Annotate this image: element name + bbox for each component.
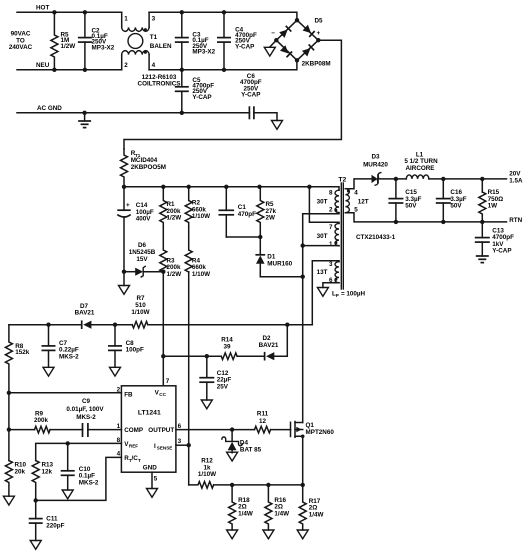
diode D4 BAT85 schottky [231,430,233,442]
svg-text:1: 1 [329,241,333,248]
resistor R14 39 [221,353,237,360]
svg-text:CC: CC [159,392,166,397]
capacitor C2 [84,12,86,37]
svg-text:12T: 12T [358,199,369,206]
capacitor C9 [82,423,84,437]
svg-text:25V: 25V [217,384,229,391]
wire R14 to VCC rail [163,355,221,357]
svg-text:39: 39 [223,343,231,350]
wire HOT extension to bridge [149,12,297,20]
svg-text:Y-CAP: Y-CAP [235,43,254,50]
resistor R5 1M [51,12,58,70]
svg-text:152k: 152k [15,349,30,356]
ground triangle R17 [297,530,308,539]
capacitor C16 [441,177,445,181]
svg-text:AIRCORE: AIRCORE [405,165,434,172]
wire pin6 to ground [323,283,339,288]
ground triangle C6 [272,121,283,130]
svg-text:+: + [317,30,321,37]
svg-text:12: 12 [259,418,267,425]
wire bridge plus to right bus [124,40,341,149]
capacitor C5 [181,70,183,87]
svg-text:20k: 20k [15,468,26,475]
wire pin4 RTCT [36,457,122,500]
ground triangle C14/D6 [123,272,125,286]
ground triangle R18 [227,530,238,539]
wire HOT line [17,11,122,13]
bridge frame [276,20,318,60]
wire bridge minus to ground [270,40,277,47]
svg-text:AC GND: AC GND [37,105,62,112]
transistor Q1 MPT2N60 [290,422,292,436]
ground triangle C10 [62,490,73,499]
svg-text:1: 1 [124,15,128,22]
wire pin1 to drain rail [303,245,339,247]
capacitor C4 [223,12,225,37]
T2 winding 1 primary 30T pins 8-2 [335,190,339,212]
wire pin5 GND [151,472,153,488]
svg-text:50V: 50V [450,203,462,210]
svg-text:1W: 1W [488,203,498,210]
resistor R12 1k [189,482,214,489]
svg-text:1/4W: 1/4W [238,510,253,517]
svg-text:2KBP08M: 2KBP08M [302,60,331,67]
wire NEU line [17,69,122,71]
diode D2 BAV21 [266,352,274,360]
svg-text:220pF: 220pF [46,522,64,529]
resistor R11 12 [255,426,271,433]
svg-text:1/10W: 1/10W [192,271,210,278]
T2 winding 2 primary 30T pins 7-1 [335,223,339,245]
capacitor C14 electrolytic [123,187,125,210]
capacitor C11 220pF [35,500,37,518]
ground triangle C7 [43,367,54,376]
wire snubber node [226,236,260,238]
wire pin4 to D3 [345,179,371,189]
svg-text:MUR420: MUR420 [363,162,388,169]
resistor R3 200k [160,227,167,272]
wire R9 to C9 [50,429,82,431]
svg-text:12k: 12k [42,468,53,475]
svg-text:COILTRONICS: COILTRONICS [138,80,181,87]
svg-text:3: 3 [329,261,333,268]
svg-text:C1: C1 [238,204,247,211]
wire D2 branch [274,325,287,357]
wire D3 to 20V [378,178,406,180]
svg-text:MKS-2: MKS-2 [59,353,79,360]
svg-text:P: P [336,293,339,298]
svg-text:4: 4 [152,62,156,69]
svg-text:30T: 30T [317,199,328,206]
resistor R4 660k [185,227,192,272]
svg-text:I: I [154,443,156,450]
svg-text:200k: 200k [34,417,49,424]
inductor L1 [406,175,429,179]
transformer T1 BALUN [121,12,123,27]
resistor R17 2ohm [299,485,306,530]
resistor R2 660k [185,187,192,227]
svg-text:HOT: HOT [36,5,49,12]
ground earth C13 [476,255,489,257]
svg-text:2W: 2W [266,215,276,222]
svg-text:1/2W: 1/2W [167,271,182,278]
svg-text:3: 3 [178,438,182,445]
capacitor C7 [48,325,50,346]
bridge diode NW [279,26,291,38]
svg-text:1/2W: 1/2W [167,215,182,222]
wire pin3 ISENSE [176,444,189,446]
capacitor C3 [181,12,183,37]
resistor R18 2ohm [229,485,236,530]
ground triangle R10 [3,496,14,505]
wire sense node line [214,484,303,486]
capacitor C1 470pF [225,187,227,211]
resistor R1 200k [160,187,167,227]
wire L1 to 20V out [429,178,507,180]
svg-text:NEU: NEU [36,62,50,69]
wire left rail R8-R10 [8,393,10,461]
wire R7 to D7 [91,324,132,326]
wire pin6 OUTPUT to gate [176,429,255,431]
ground triangle C11 [30,541,41,550]
svg-text:13T: 13T [317,269,328,276]
resistor R9 200k [35,426,51,433]
T2 winding 3 bias 13T pins 3-6 [335,262,339,283]
svg-text:C9: C9 [82,398,91,405]
svg-text:R11: R11 [257,411,269,418]
svg-text:0.01µF, 100V: 0.01µF, 100V [66,406,104,413]
svg-text:7: 7 [329,224,333,231]
resistor R15 750 [480,177,484,181]
svg-text:CTX210433-1: CTX210433-1 [356,234,396,241]
svg-text:4: 4 [117,451,121,458]
svg-text:1/4W: 1/4W [309,511,324,518]
wire pin5 to RTN [345,213,506,222]
wire NEU extension to bridge [149,60,297,70]
svg-text:15V: 15V [136,256,148,263]
svg-text:50V: 50V [405,203,417,210]
wire ISENSE down to R12 [188,445,190,485]
svg-text:FB: FB [124,391,133,398]
resistor R16 2ohm [265,485,272,530]
svg-text:MKS-2: MKS-2 [79,479,99,486]
svg-text:LT1241: LT1241 [138,410,161,417]
capacitor C12 22uF [206,356,208,378]
svg-text:D2: D2 [262,335,271,342]
svg-text:7: 7 [166,378,170,385]
junction dots R5 [52,10,56,14]
capacitor C6 (series in AC GND) [248,106,250,119]
svg-text:SENSE: SENSE [157,446,173,451]
svg-text:RTN: RTN [509,217,522,224]
svg-text:1/10W: 1/10W [198,471,216,478]
svg-text:1/10W: 1/10W [131,309,149,316]
wire AC GND line [17,112,249,114]
wire pin2 to drain rail [303,213,339,246]
svg-text:T: T [138,458,141,463]
svg-text:REF: REF [129,444,138,449]
svg-text:Y-CAP: Y-CAP [192,94,211,101]
svg-text:400V: 400V [136,216,152,223]
wire VCC rail [162,272,164,386]
capacitor C10 [67,443,69,470]
wire DC bus [124,187,339,190]
wire bus to pin7 [309,187,339,224]
svg-text:1/10W: 1/10W [192,213,210,220]
resistor R10 20k [5,461,12,497]
svg-text:1/2W: 1/2W [61,43,76,50]
resistor R7 510 [132,321,148,328]
svg-text:4: 4 [354,190,358,197]
svg-text:240VAC: 240VAC [9,44,33,51]
svg-text:1.5A: 1.5A [509,177,523,184]
svg-text:MP3-X2: MP3-X2 [92,44,115,51]
bridge diode SE [302,44,314,56]
ground triangle C8 [110,367,121,376]
wire pin3 down to feedback line [312,261,339,325]
svg-text:2: 2 [329,207,333,214]
diode D1 MUR160 [259,237,261,255]
svg-text:BALEN: BALEN [150,43,172,50]
svg-text:8: 8 [329,190,333,197]
svg-text:D5: D5 [315,17,324,24]
capacitor C13 Y-cap [481,222,483,238]
diode D7 BAV21 [83,321,91,329]
resistor R8 152k [5,325,12,394]
diode D3 MUR420 [372,175,378,183]
svg-text:100pF: 100pF [126,347,144,354]
svg-text:BAV21: BAV21 [75,310,95,317]
svg-text:T1: T1 [150,34,158,41]
svg-text:5: 5 [354,207,358,214]
svg-text:+: + [126,202,130,209]
svg-text:Y-CAP: Y-CAP [241,92,260,99]
wire pin8 VREF [36,443,122,460]
svg-text:470pF: 470pF [238,211,256,218]
svg-text:2: 2 [124,62,128,69]
svg-text:OUTPUT: OUTPUT [148,427,174,434]
T2 secondary 12T pins 4-5 [345,189,349,213]
ground triangle C12 [201,400,212,409]
bridge diode NE [303,25,315,37]
bridge rectifier D5 2KBP08M [271,17,330,67]
svg-text:1/4W: 1/4W [274,510,289,517]
op-amp/IC U1 LT1241 box [121,386,175,472]
svg-text:COMP: COMP [124,427,143,434]
svg-text:= 100µH: = 100µH [341,291,366,298]
wire pin2 FB [9,392,122,394]
svg-text:D3: D3 [371,154,380,161]
ground triangle D4 [227,452,238,461]
svg-text:MP3-X2: MP3-X2 [192,49,215,56]
resistor R13 12k [32,461,39,501]
wire pin1 COMP with R9 C9 [9,429,35,431]
thermistor RT1 [121,149,128,187]
wire drain rail [302,246,304,423]
capacitor C8 [114,325,116,346]
svg-text:BAV21: BAV21 [259,342,279,349]
wire feedback line [148,324,312,326]
svg-text:Y-CAP: Y-CAP [492,248,511,255]
svg-text:−: − [271,30,275,37]
ground triangle GND pin5 [147,489,158,498]
resistor R5 27k snubber [257,187,264,237]
svg-text:MPT2N60: MPT2N60 [306,429,335,436]
svg-text:T2: T2 [338,177,346,184]
bridge diode SW [280,45,292,57]
zener D6 1N5245B [124,271,135,273]
ground earth on AC GND [82,111,86,115]
svg-text:GND: GND [143,464,157,471]
svg-text:3: 3 [152,15,156,22]
wire R2R4 rail down to ISENSE [188,272,190,446]
ground triangle pin6 [317,288,328,297]
wire C6 to ground [254,113,277,121]
svg-text:5: 5 [154,476,158,483]
svg-text:30T: 30T [317,233,328,240]
capacitor C15 [394,177,398,181]
svg-text:MUR160: MUR160 [267,260,292,267]
svg-text:2KBPOO5M: 2KBPOO5M [131,164,166,171]
transformer T2 core [340,183,342,289]
ground triangle bridge [264,47,275,56]
svg-text:MKS-2: MKS-2 [76,414,96,421]
svg-text:BAT 85: BAT 85 [240,446,262,453]
ground triangle R16 [263,530,274,539]
wire D1 to drain rail [260,276,302,278]
